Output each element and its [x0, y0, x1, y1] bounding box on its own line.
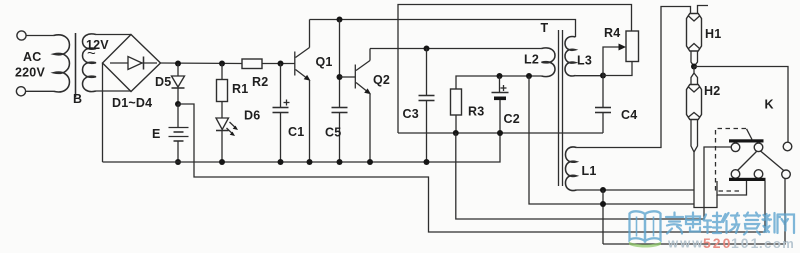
node C1 bottom	[278, 159, 284, 165]
wire positive rail from bridge right corner	[161, 62, 243, 65]
wire H2 bottom pins and drop	[691, 120, 717, 208]
terminal top-left AC input 1	[17, 31, 26, 40]
svg-text:H2: H2	[704, 84, 720, 98]
top rail from Q1 collector to L3	[310, 20, 576, 38]
svg-text:L3: L3	[577, 54, 592, 68]
bridge inner diode	[110, 62, 157, 64]
svg-text:H1: H1	[705, 27, 721, 41]
node C3 bottom	[424, 159, 430, 165]
transformer T core	[558, 30, 560, 186]
wire H1 top right pin stub	[698, 6, 709, 14]
node C3 top	[424, 46, 430, 52]
lamp H2	[687, 85, 702, 120]
svg-text:R2: R2	[252, 75, 268, 89]
svg-text:AC: AC	[23, 50, 41, 64]
capacitor C2 polarized	[499, 76, 501, 93]
svg-text:B: B	[73, 92, 82, 106]
node C5 top on rail	[337, 17, 343, 23]
svg-text:C5: C5	[325, 126, 341, 140]
wire L1 top lead to H1 riser	[577, 7, 691, 148]
svg-text:D5: D5	[155, 75, 171, 89]
wire jog from D5/E node to lower rail	[178, 104, 765, 232]
node L3-R4-C4	[600, 73, 606, 79]
svg-text:.com: .com	[759, 236, 795, 251]
wire Q2 collector riser	[369, 49, 371, 61]
svg-text:R4: R4	[604, 26, 620, 40]
svg-text:C1: C1	[288, 125, 304, 139]
relay contact circles bottom	[731, 170, 740, 179]
node L1 bottom x603	[600, 187, 606, 193]
transformer B core	[75, 33, 77, 97]
LED D6	[216, 118, 229, 130]
potentiometer R4	[626, 31, 639, 62]
wire H1 bottom to K right upper circle	[694, 67, 788, 143]
wire Q2 base lead	[340, 76, 356, 78]
node C1 top	[278, 61, 284, 67]
svg-text:Q1: Q1	[316, 55, 333, 69]
rail B from Q2 collector to L2 top	[370, 48, 542, 50]
node L2 bottom junction	[526, 73, 532, 79]
wire L2 bottom junction down and right to relay node	[529, 76, 694, 204]
svg-text:Q2: Q2	[373, 73, 390, 87]
capacitor C3	[426, 49, 428, 96]
node Q2 base tap	[337, 74, 343, 80]
wire secondary top to bridge top corner	[96, 34, 131, 36]
diode D5	[177, 64, 179, 77]
wire AC bottom lead	[26, 90, 54, 92]
node C2 bottom	[497, 130, 503, 136]
svg-text:R3: R3	[468, 105, 484, 119]
winding L2	[542, 48, 556, 77]
svg-text:220V: 220V	[15, 66, 45, 80]
relay K dashed enclosure	[716, 129, 747, 192]
svg-text:L1: L1	[582, 164, 597, 178]
relay diagonal links	[738, 151, 758, 171]
relay right upper circle	[783, 142, 792, 151]
node R1 top	[219, 61, 225, 67]
wire H2 top pins	[691, 67, 694, 85]
svg-text:K: K	[765, 98, 774, 112]
winding L3	[565, 36, 576, 76]
svg-text:101: 101	[731, 235, 760, 251]
wire Q1 collector riser	[309, 20, 311, 48]
ground rail bottom	[103, 133, 501, 162]
svg-text:~: ~	[87, 45, 96, 62]
wire Q2 emitter drop	[369, 94, 371, 163]
capacitor C1	[280, 64, 282, 108]
transistor Q2	[354, 65, 356, 89]
relay bottom contact bar	[729, 178, 766, 181]
relay bottom staple link	[717, 181, 747, 195]
wire R3 bottom to relay contact via y219	[456, 133, 731, 219]
relay top contact bar	[729, 139, 764, 142]
node D6 bottom	[219, 159, 225, 165]
svg-text:D1~D4: D1~D4	[112, 96, 152, 110]
wire L1 bottom lead	[577, 189, 695, 191]
resistor R1	[221, 64, 223, 80]
resistor R3	[456, 76, 542, 89]
wire L3 bottom to node	[576, 75, 604, 77]
topmost rail with end risers	[398, 5, 632, 134]
svg-text:C3: C3	[403, 107, 419, 121]
bridge rectifier D1-D4 diamond	[103, 35, 161, 92]
svg-text:L2: L2	[524, 53, 539, 67]
relay armature lever	[747, 129, 753, 140]
lamp H1	[687, 14, 702, 52]
mid horizontal line y133	[398, 132, 603, 134]
svg-text:C2: C2	[504, 112, 520, 126]
terminal bottom-left AC input 2	[16, 87, 25, 96]
resistor R2	[242, 59, 262, 69]
capacitor C5	[339, 20, 341, 108]
node H1-H2 junction	[691, 64, 697, 70]
svg-text:C4: C4	[621, 108, 637, 122]
wire AC top lead	[26, 35, 53, 37]
wire x603 column down	[602, 190, 604, 244]
battery E	[177, 104, 179, 127]
node C5 bottom	[337, 159, 343, 165]
svg-text:T: T	[541, 21, 549, 35]
watermark book icon	[630, 211, 661, 241]
watermark hanzi characters	[666, 213, 794, 235]
winding L1	[565, 147, 576, 191]
transistor Q1	[294, 52, 296, 76]
capacitor C4	[602, 76, 604, 108]
node D5 top	[175, 61, 181, 67]
transformer B secondary winding 12V	[83, 34, 97, 92]
node C2 top	[497, 73, 503, 79]
svg-text:E: E	[152, 127, 161, 141]
wire secondary bottom to bridge bottom corner	[96, 90, 131, 92]
wire H1 bottom pins	[691, 51, 694, 67]
node D5-E junction	[175, 101, 181, 107]
svg-text:520: 520	[703, 235, 732, 251]
wire y244 to relay right circle	[603, 179, 785, 245]
svg-text:D6: D6	[244, 109, 260, 123]
svg-text:R1: R1	[232, 82, 248, 96]
relay contact circles top	[731, 143, 740, 152]
node E bottom on ground rail	[175, 159, 181, 165]
node x603 y204	[600, 201, 606, 207]
wire Q1 emitter drop	[309, 80, 311, 162]
transformer B primary winding	[54, 35, 70, 92]
wire bridge left corner down to ground rail	[102, 63, 104, 162]
node R3 bottom	[453, 130, 459, 136]
